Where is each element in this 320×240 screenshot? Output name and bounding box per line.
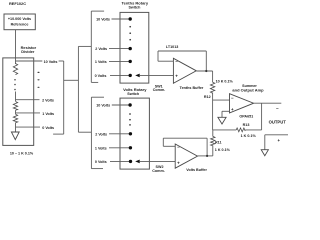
svg-text:−: − (175, 59, 178, 64)
svg-text:R11: R11 (215, 140, 222, 144)
volts rotary switch SW2 box (120, 98, 149, 169)
wire bottom feed bottom elbow (91, 168, 103, 170)
wire SW2 1V contact (109, 147, 130, 149)
wire U3 feedback vertical (261, 103, 263, 130)
SW1 wiper arrow (135, 74, 140, 78)
op-amp U2A tenths buffer triangle (173, 58, 196, 83)
wire SW2 0V contact (110, 160, 130, 162)
resistor R12 (210, 82, 214, 93)
wire U2A feedback left vertical (157, 51, 159, 61)
svg-text:R13: R13 (243, 123, 250, 127)
node 1 Volt tap (16, 112, 41, 114)
ground (divider) (11, 132, 19, 140)
node SW2 0V contact dot (129, 160, 132, 163)
resistor R3 (13, 114, 17, 123)
resistor R1 (divider top) (13, 64, 17, 75)
wire top feed bottom elbow (91, 81, 98, 83)
wire bus1 bottom elbow (53, 133, 64, 135)
svg-text:REF102C: REF102C (9, 1, 26, 6)
wire R11 to volts buffer output (212, 146, 214, 156)
wire R12 to summing node (212, 92, 214, 130)
svg-text:0 Volts: 0 Volts (42, 126, 54, 130)
wire U2B feedback right vertical (206, 138, 208, 156)
node SW2 10V contact dot (128, 103, 131, 106)
node 0 Volts tap (16, 126, 41, 128)
svg-text:−: − (231, 95, 234, 100)
wire plus output terminal (265, 134, 288, 136)
svg-text:1 K 0.1%: 1 K 0.1% (241, 134, 257, 138)
node SW1 0V contact dot (129, 74, 132, 77)
wire U3 plus to ground (221, 111, 223, 117)
resistor R13 (236, 128, 245, 132)
svg-text:Switch: Switch (127, 92, 140, 96)
svg-text:0 Volts: 0 Volts (95, 160, 107, 164)
node SW1 10V contact dot (129, 17, 132, 20)
resistor divider box (3, 58, 34, 145)
svg-text:1 K 0.1%: 1 K 0.1% (215, 148, 231, 152)
wire summing node to R11 (212, 130, 214, 136)
wire feedback right segment (245, 129, 261, 131)
svg-text:2 Volts: 2 Volts (42, 99, 54, 103)
node U2B output junction (206, 155, 208, 157)
svg-text:2 Volts: 2 Volts (95, 132, 107, 136)
wire SW1 0V contact (110, 74, 130, 76)
wire chain (15, 110, 17, 114)
svg-text:OPA651: OPA651 (239, 115, 253, 119)
wire divider chain (15, 92, 17, 102)
wire plus terminal to ground (264, 135, 266, 150)
SW2 wiper arrow (135, 160, 140, 164)
wire U2B output (198, 155, 213, 157)
wire feedback left segment (213, 129, 237, 131)
svg-text:+10.000 Volts: +10.000 Volts (8, 17, 31, 21)
svg-text:1 Volts: 1 Volts (95, 60, 107, 64)
wire U2B inverting input (163, 145, 175, 147)
ground (U3 plus input) (218, 117, 226, 124)
svg-text:Tenths Buffer: Tenths Buffer (180, 86, 204, 90)
wire U3 noninverting input (222, 110, 230, 112)
svg-text:and Output Amp: and Output Amp (232, 87, 264, 92)
svg-text:+: + (231, 107, 234, 112)
wire output to R12 (212, 71, 214, 82)
voltage reference U1 box (4, 14, 35, 30)
node U2A output junction (205, 70, 207, 72)
node SW2 2V contact dot (129, 132, 132, 135)
divider tap ellipsis dots (37, 72, 39, 88)
svg-text:OUTPUT: OUTPUT (269, 120, 287, 125)
svg-text:Comm.: Comm. (152, 169, 165, 173)
wire bottom feed vertical (90, 97, 92, 168)
wire reference output to divider (15, 30, 17, 64)
svg-text:−: − (276, 106, 279, 111)
op-amp U3 summer triangle (230, 94, 254, 113)
wire 10V tap to bus (59, 60, 64, 62)
op-amp U2B volts buffer triangle (175, 144, 197, 168)
wire summing node to inverting input (213, 99, 230, 101)
svg-text:Volts Buffer: Volts Buffer (186, 168, 207, 172)
wire top feed vertical (90, 11, 92, 82)
svg-text:+: + (177, 161, 180, 166)
wire U2B feedback top (163, 137, 207, 139)
node 10 Volts tap (16, 60, 43, 62)
svg-text:1 Volts: 1 Volts (95, 146, 107, 150)
wire SW1 10V contact (112, 18, 130, 20)
svg-text:LT1013: LT1013 (166, 45, 178, 49)
wire bus2 vertical (77, 46, 79, 132)
wire U2B feedback left vertical (162, 138, 164, 146)
wire U2A feedback right vertical (205, 51, 207, 71)
wire bus1 vertical (63, 61, 65, 134)
wire SW1 2V contact (109, 48, 130, 50)
svg-text:10 Volts: 10 Volts (96, 17, 110, 21)
SW1 ellipsis dots (129, 26, 131, 41)
node SW2 1V contact dot (129, 146, 132, 149)
wire U2A output (196, 70, 212, 72)
resistor R2 (13, 102, 17, 111)
node SW1 2V contact dot (129, 47, 132, 50)
svg-text:0 Volts: 0 Volts (95, 74, 107, 78)
svg-text:Comm.: Comm. (153, 88, 166, 92)
wire SW2 10V contact (112, 104, 130, 106)
svg-text:10 Volts: 10 Volts (44, 60, 58, 64)
wire SW1 wiper to buffer (139, 74, 173, 76)
wire SW1 1V contact (109, 60, 130, 62)
svg-text:10 – 1 K 0.1%: 10 – 1 K 0.1% (10, 151, 34, 155)
svg-text:1 Volts: 1 Volts (42, 112, 54, 116)
wire U2A inverting input (158, 60, 173, 62)
wire U3 output (254, 102, 282, 104)
svg-text:−: − (177, 145, 180, 150)
svg-text:Divider: Divider (21, 49, 35, 54)
svg-text:+: + (175, 73, 178, 78)
wire U2A feedback top (158, 50, 206, 52)
SW2 ellipsis dots (129, 113, 131, 126)
svg-text:+: + (278, 138, 281, 143)
wire bus1 to bus2 connector (64, 79, 79, 81)
wire SW2 2V contact (109, 133, 130, 135)
node SW1 1V contact dot (129, 60, 132, 63)
svg-text:10 Volts: 10 Volts (96, 103, 110, 107)
wire bus2 top horizontal (78, 45, 91, 47)
svg-text:R12: R12 (204, 95, 211, 99)
tenths rotary switch SW1 box (120, 12, 149, 83)
wire chain to 0V tap (15, 123, 17, 132)
ground (output plus) (261, 150, 268, 156)
divider ellipsis dots (14, 79, 16, 90)
wire bottom feed corner horizontal (91, 96, 104, 98)
svg-text:Switch: Switch (128, 5, 141, 9)
wire SW2 wiper to buffer (139, 160, 175, 162)
wire top feed corner horizontal (91, 10, 104, 12)
svg-text:10 K 0.1%: 10 K 0.1% (216, 80, 234, 84)
svg-text:Reference: Reference (11, 22, 29, 26)
svg-text:2 Volts: 2 Volts (95, 47, 107, 51)
resistor R11 (211, 136, 215, 145)
wire bus2 to bottom feed (78, 131, 91, 133)
node 2 Volts tap (16, 99, 40, 101)
